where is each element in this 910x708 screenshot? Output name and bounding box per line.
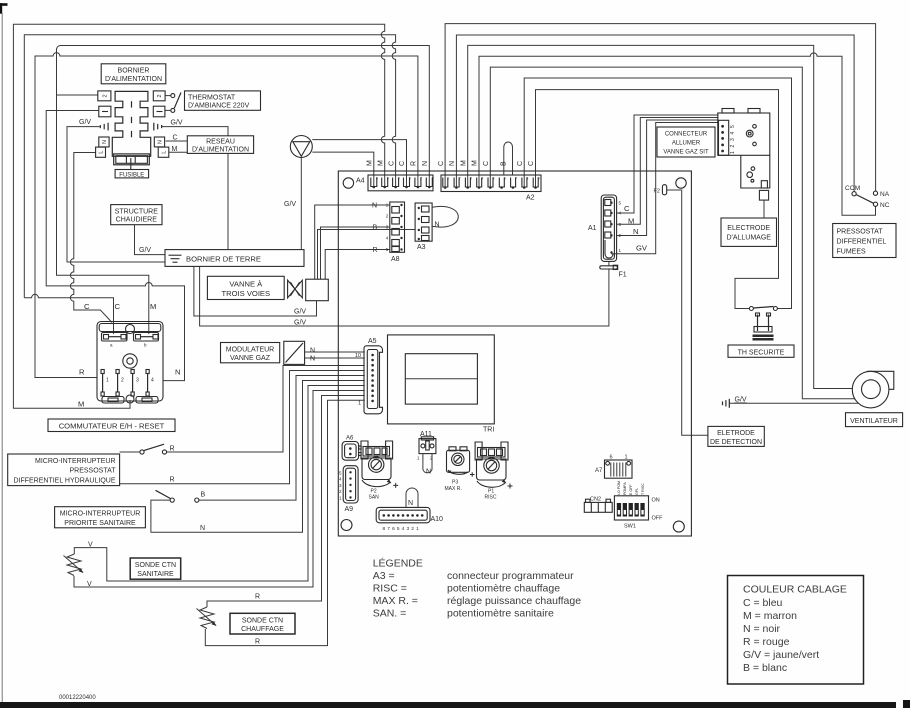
svg-text:5: 5 (730, 125, 736, 128)
label bornier de terre (165, 250, 304, 267)
wire pump lower to A4 pin1 (312, 152, 374, 186)
sonde sanitaire thermistor (64, 554, 84, 576)
svg-text:ELETRODE: ELETRODE (717, 430, 755, 437)
svg-text:G/V: G/V (294, 309, 306, 316)
wire F1 to A1 (608, 261, 610, 266)
svg-text:4: 4 (402, 526, 405, 532)
svg-text:TROIS VOIES: TROIS VOIES (222, 289, 271, 298)
label structure chaudiere (111, 205, 162, 225)
svg-text:A3 =: A3 = (373, 570, 395, 582)
svg-text:5: 5 (493, 177, 495, 181)
wire A5 pin6 N to priorite switch left (151, 381, 365, 533)
wire earth right comb to bornier de terre top (162, 127, 228, 252)
page bottom black bar (0, 700, 910, 708)
svg-text:L: L (161, 151, 167, 154)
svg-text:M = marron: M = marron (743, 610, 797, 622)
svg-text:1: 1 (730, 151, 736, 154)
svg-text:A9: A9 (345, 506, 354, 513)
svg-text:M: M (628, 217, 634, 226)
label sonde ctn chauffage (230, 613, 295, 634)
svg-text:POMPA: POMPA (623, 482, 627, 495)
ground symbol right comb (154, 123, 162, 131)
valve symbol (288, 280, 303, 298)
wire branch to terminal 2 (57, 94, 98, 96)
svg-text:connecteur programmateur: connecteur programmateur (447, 570, 574, 582)
svg-text:L: L (98, 151, 104, 154)
svg-text:SW1: SW1 (624, 524, 636, 530)
mounting hole (673, 521, 684, 532)
wire C: A4 pin3 to junction (24.3,297.7) (24, 35, 395, 298)
svg-text:1: 1 (106, 378, 109, 384)
svg-text:M: M (172, 146, 178, 153)
svg-text:2: 2 (459, 177, 461, 181)
svg-text:COM: COM (845, 185, 860, 192)
wire M to reseau (169, 151, 188, 153)
thermostat lever (174, 93, 181, 109)
comb center slots (131, 101, 133, 107)
svg-text:7: 7 (387, 526, 390, 532)
label micro-interrupteur pressostat differentiel hydraulique (8, 454, 120, 486)
th securite thermostat icon (753, 313, 774, 341)
NA circle (873, 191, 877, 195)
svg-text:FUSIBLE: FUSIBLE (119, 172, 144, 178)
svg-text:A2: A2 (526, 195, 535, 202)
svg-text:VANNE GAZ SIT: VANNE GAZ SIT (663, 150, 709, 156)
label micro-interrupteur priorite sanitaire (55, 507, 146, 528)
svg-text:DIFFERENTIEL HYDRAULIQUE: DIFFERENTIEL HYDRAULIQUE (13, 477, 115, 484)
svg-text:C: C (84, 302, 90, 311)
th securite switch circle left (749, 307, 753, 311)
svg-text:B = blanc: B = blanc (743, 662, 787, 674)
svg-text:FUMEES: FUMEES (837, 249, 867, 256)
svg-text:4: 4 (151, 378, 154, 384)
svg-text:G/V: G/V (171, 120, 183, 127)
svg-text:potentiomètre sanitaire: potentiomètre sanitaire (447, 608, 554, 620)
svg-text:6: 6 (376, 177, 378, 181)
svg-text:A4: A4 (356, 178, 365, 185)
svg-text:2: 2 (420, 177, 422, 181)
svg-text:7: 7 (515, 177, 517, 181)
svg-text:C: C (388, 161, 395, 166)
wire A1 pin4 C to SIT connector (617, 115, 719, 213)
svg-text:NA: NA (880, 191, 890, 198)
wire A2 pin3 M to ventilateur (468, 45, 853, 388)
wire A2 pin1 C to pressostat fumees NA (445, 24, 875, 192)
wire G/V ground to ventilateur (729, 402, 858, 404)
wire A5 pin3 to pressostat switch (167, 366, 365, 453)
terminal 2 left (98, 91, 111, 101)
svg-text:SAN. =: SAN. = (373, 608, 407, 620)
label fusible (115, 170, 149, 179)
svg-text:2: 2 (121, 378, 124, 384)
svg-text:3: 3 (470, 177, 472, 181)
pump circulateur (290, 136, 312, 158)
svg-text:8: 8 (382, 526, 385, 532)
wire A8 pin3 B to valve solenoid (321, 227, 390, 279)
svg-text:R: R (79, 368, 85, 377)
thermostat switch circle top (171, 94, 175, 98)
svg-text:A7: A7 (595, 468, 603, 474)
svg-text:C: C (399, 161, 406, 166)
svg-text:00012220400: 00012220400 (59, 695, 96, 701)
potentiometer P3 MAX R (447, 447, 475, 477)
svg-text:C: C (483, 161, 490, 166)
svg-text:N: N (310, 356, 315, 363)
svg-text:3: 3 (730, 138, 736, 141)
svg-text:N: N (422, 161, 429, 166)
svg-text:M: M (150, 302, 156, 311)
svg-text:C: C (528, 161, 535, 166)
COM circle (852, 192, 856, 196)
A1 pin numbers (619, 201, 622, 254)
svg-text:R: R (255, 594, 260, 601)
label thermostat d'ambiance (185, 91, 261, 110)
mounting hole (676, 178, 686, 188)
ground symbol left comb (100, 123, 108, 131)
wire A3 N to valve solenoid (318, 230, 416, 280)
label eletrode de detection (708, 426, 764, 446)
fusible component (114, 154, 150, 170)
svg-text:B: B (201, 492, 206, 499)
svg-text:SONDE CTN: SONDE CTN (242, 617, 283, 624)
connector A6 (342, 442, 361, 461)
svg-text:C: C (438, 161, 445, 166)
A2 pin labels rotated (438, 160, 535, 166)
A10 jumper loop N (406, 488, 418, 507)
couleur cablage box (728, 576, 864, 685)
svg-text:N: N (633, 227, 638, 236)
svg-text:B: B (501, 161, 508, 166)
svg-text:C = bleu: C = bleu (743, 597, 783, 609)
svg-text:N: N (175, 368, 180, 377)
lever COM-NC (856, 195, 874, 204)
wire A2 pin9 C to th securite left (536, 90, 779, 309)
th securite switch lever (753, 307, 773, 309)
connector A7 (605, 460, 633, 478)
hop arcs (0, 0, 1, 1)
terminal 1 right (153, 106, 165, 117)
terminal 1 left (99, 106, 111, 117)
svg-text:M: M (460, 160, 467, 166)
potentiometer P2 SAN (361, 441, 398, 488)
wire thermostat terminal 2 (165, 95, 170, 97)
wire A5 pin5 B to priorite switch (199, 376, 365, 501)
svg-text:G/V = jaune/vert: G/V = jaune/vert (743, 649, 819, 661)
A11 jumper loop (423, 454, 432, 473)
A3 jumper loop (432, 206, 458, 227)
svg-text:G/V: G/V (139, 247, 151, 254)
svg-text:E OFF: E OFF (629, 484, 633, 495)
svg-text:DIFFERENTIEL: DIFFERENTIEL (837, 239, 887, 246)
wire pump G/V down to bornier de terre (300, 158, 302, 253)
svg-text:VANNE GAZ: VANNE GAZ (230, 355, 271, 362)
svg-text:PRIORITE SANITAIRE: PRIORITE SANITAIRE (64, 520, 136, 527)
svg-text:SANITAIRE: SANITAIRE (137, 571, 174, 578)
valve solenoid box (306, 279, 329, 301)
svg-text:2: 2 (157, 94, 163, 97)
A4 pin labels rotated (367, 160, 430, 166)
fuse F2 (662, 185, 666, 195)
svg-text:R: R (411, 161, 418, 166)
terminal L left (96, 147, 106, 157)
svg-text:ELECTRODE: ELECTRODE (727, 225, 770, 232)
svg-text:M: M (367, 160, 374, 166)
dip labels rotated (617, 481, 645, 495)
fuse F1 (600, 265, 618, 269)
pressostat hydraulique switch (140, 444, 167, 454)
svg-text:N: N (426, 469, 431, 476)
sonde chauffage thermistor (197, 607, 217, 629)
svg-text:MODULATEUR: MODULATEUR (226, 346, 274, 353)
svg-text:2: 2 (411, 526, 414, 532)
wire A5 pin7 V to sonde sanitaire top (74, 386, 364, 582)
svg-text:R: R (373, 247, 378, 254)
svg-text:N: N (449, 161, 456, 166)
svg-text:D'ALLUMAGE: D'ALLUMAGE (726, 235, 771, 242)
wire M: A4 pin2 to commutateur pin3 via page top-left (13, 24, 384, 408)
wire A1 pin2 N to SIT connector (617, 120, 719, 236)
wire N: A4 pin6 down left side (57, 46, 430, 335)
priorite sanitaire switch (156, 490, 199, 502)
svg-text:PRESSOSTAT: PRESSOSTAT (837, 229, 884, 236)
terminal N right (154, 137, 164, 147)
svg-text:V: V (88, 542, 93, 549)
svg-text:TH SECURITE: TH SECURITE (738, 349, 785, 356)
svg-text:OFF: OFF (652, 516, 664, 522)
A9 pin numbers (339, 470, 342, 500)
wire A1 pin1 GV to SIT connector (611, 123, 719, 254)
wire N comb terminal 1 to commutateur pin4 (46, 111, 184, 381)
wire modulator to A5 pin1 (305, 351, 365, 353)
svg-text:G/V: G/V (284, 201, 296, 208)
connector CN2 (584, 499, 612, 512)
label reseau d'alimentation (187, 136, 253, 154)
svg-text:1: 1 (416, 526, 419, 532)
svg-text:D'ALIMENTATION: D'ALIMENTATION (105, 76, 162, 83)
svg-text:2: 2 (102, 94, 108, 97)
svg-text:6: 6 (504, 177, 506, 181)
svg-text:LO POM: LO POM (617, 481, 621, 495)
comb terminal block (112, 91, 150, 156)
wire A2 pin4 M to pressostat fumees NC (479, 53, 876, 215)
svg-text:5: 5 (387, 177, 389, 181)
svg-text:MAX R. =: MAX R. = (373, 595, 418, 607)
wire A2 pin8 C to th securite right (524, 78, 791, 309)
label commutateur E/H reset (48, 419, 175, 432)
wire thermostat terminal 1 (165, 109, 171, 111)
svg-text:potentiomètre chauffage: potentiomètre chauffage (447, 583, 560, 595)
potentiometer P1 RISC (475, 442, 512, 489)
wire A2 pin2 N to pressostat fumees COM (456, 35, 854, 192)
svg-text:A8: A8 (391, 256, 400, 263)
svg-text:M: M (78, 400, 84, 409)
svg-text:2: 2 (730, 145, 736, 148)
svg-text:N: N (435, 222, 440, 229)
svg-text:A3: A3 (417, 244, 426, 251)
wire A5 pin9 R to sonde chauffage top (207, 396, 365, 608)
svg-text:G/V: G/V (79, 119, 91, 126)
wire A5 pin10 R to sonde chauffage bottom (205, 400, 364, 645)
svg-text:R: R (255, 639, 260, 646)
svg-text:M: M (472, 160, 479, 166)
svg-text:F1: F1 (619, 272, 627, 279)
svg-text:A6: A6 (346, 436, 354, 442)
svg-text:4: 4 (730, 132, 736, 135)
svg-text:RISC =: RISC = (373, 583, 407, 595)
svg-text:DE DETECTION: DE DETECTION (710, 439, 762, 446)
wire pump upper to A4 pin4 (312, 140, 406, 186)
svg-text:A10: A10 (431, 516, 444, 523)
svg-text:NC: NC (880, 202, 890, 209)
svg-text:BORNIER: BORNIER (118, 68, 150, 75)
wire G/V bornier de terre to fuse F1 (200, 266, 609, 326)
svg-text:THERMOSTAT: THERMOSTAT (188, 94, 236, 101)
PCB board outline (338, 171, 691, 536)
svg-text:N: N (310, 348, 315, 355)
svg-text:SAN: SAN (369, 495, 380, 501)
connector A11 (419, 437, 436, 454)
label connecteur allumer vanne gaz sit (657, 127, 715, 157)
wire A1 pin3 M to SIT connector (617, 118, 719, 225)
svg-text:VANNE À: VANNE À (229, 279, 263, 288)
svg-text:SONDE CTN: SONDE CTN (135, 562, 176, 569)
svg-text:M: M (377, 160, 384, 166)
thermostat switch circle bottom (171, 108, 175, 112)
svg-text:D'ALIMENTATION: D'ALIMENTATION (192, 146, 249, 153)
svg-text:G/V: G/V (735, 397, 747, 404)
wire A2 pin5 C to ventilateur (490, 67, 854, 399)
wire F2 to electrode detection (667, 190, 708, 435)
svg-text:N: N (157, 140, 163, 144)
label sonde ctn sanitaire (130, 558, 181, 579)
svg-text:V: V (87, 581, 92, 588)
wire A8 pin5 R to valve solenoid (325, 250, 390, 280)
commutateur bottom pins (101, 370, 158, 404)
wire A5 pin4 R to pressostat box (120, 371, 365, 484)
svg-text:PRESSOSTAT: PRESSOSTAT (69, 468, 116, 475)
commutateur body (97, 322, 163, 402)
svg-text:ALLUMER: ALLUMER (672, 141, 701, 147)
wire A5 pin8 V to sonde sanitaire bottom (74, 391, 365, 588)
svg-text:3: 3 (406, 526, 409, 532)
wire C fusible L to commutateur terminal a (70, 153, 112, 323)
svg-text:8: 8 (526, 177, 528, 181)
legend block (373, 557, 582, 620)
svg-text:D'AMBIANCE 220V: D'AMBIANCE 220V (188, 103, 250, 110)
svg-text:ON: ON (652, 498, 660, 504)
svg-text:P3: P3 (452, 480, 458, 486)
svg-text:GPL: GPL (635, 488, 639, 495)
terminal L right (158, 147, 169, 157)
label vanne a trois voies (207, 276, 284, 299)
page left edge line (1, 13, 3, 702)
mounting hole (343, 178, 353, 188)
svg-text:N: N (372, 203, 377, 210)
wire structure chaudiere G/V (135, 225, 166, 255)
label modulateur vanne gaz (221, 343, 280, 363)
connector A10 (376, 507, 430, 522)
svg-text:4: 4 (398, 177, 400, 181)
svg-text:6: 6 (610, 455, 613, 461)
svg-text:1: 1 (625, 455, 628, 461)
label ventilateur (846, 413, 903, 427)
svg-text:C: C (173, 135, 178, 142)
svg-text:C: C (624, 204, 630, 213)
svg-text:CHAUFFAGE: CHAUFFAGE (241, 626, 284, 633)
svg-text:N: N (200, 525, 205, 532)
svg-text:R: R (170, 477, 175, 484)
svg-text:10: 10 (355, 353, 361, 359)
NC circle (873, 202, 877, 206)
label th securite (728, 345, 794, 357)
label pressostat differentiel fumees (833, 224, 896, 258)
wire earth left comb to bornier de terre (67, 127, 165, 262)
svg-text:R: R (170, 446, 175, 453)
wire C branch to commutateur terminal a (24, 294, 113, 334)
svg-text:A5: A5 (368, 338, 377, 345)
wire C to reseau (166, 140, 188, 142)
svg-text:C: C (115, 302, 121, 311)
svg-text:1: 1 (432, 177, 434, 181)
wire modulator to A5 pin2 (305, 357, 365, 359)
svg-text:MICRO-INTERRUPTEUR: MICRO-INTERRUPTEUR (60, 511, 141, 518)
wire R pressostat box to switch (120, 451, 140, 453)
svg-text:5: 5 (397, 526, 400, 532)
svg-text:G/V: G/V (294, 320, 306, 327)
svg-text:3: 3 (136, 378, 139, 384)
ground symbol fan (723, 399, 730, 408)
svg-text:6: 6 (392, 526, 395, 532)
svg-text:CN2: CN2 (590, 497, 601, 503)
svg-text:COMMUTATEUR E/H - RESET: COMMUTATEUR E/H - RESET (59, 422, 165, 431)
mounting hole (341, 520, 352, 531)
svg-text:9: 9 (538, 177, 540, 181)
svg-text:3: 3 (409, 177, 411, 181)
jumper loop A2 pins 6-7 (504, 142, 513, 175)
display TRI (388, 335, 495, 424)
terminal N left (99, 137, 109, 147)
svg-text:B: B (373, 225, 378, 232)
svg-text:LÉGENDE: LÉGENDE (373, 557, 423, 570)
wire R: A4 pin5 to commutateur left (35, 53, 418, 378)
svg-text:BORNIER DE TERRE: BORNIER DE TERRE (186, 255, 261, 264)
terminal 2 right (153, 91, 165, 101)
A8 pin numbers (386, 203, 389, 253)
modulator symbol (284, 341, 305, 364)
svg-text:COULEUR CABLAGE: COULEUR CABLAGE (743, 584, 847, 596)
svg-text:R = rouge: R = rouge (743, 636, 790, 648)
svg-text:N: N (102, 140, 108, 144)
label electrode d'allumage (721, 218, 777, 246)
svg-text:STRUCTURE: STRUCTURE (115, 208, 158, 215)
svg-text:TRI: TRI (483, 427, 494, 434)
svg-text:N: N (408, 500, 413, 507)
svg-text:VENTILATEUR: VENTILATEUR (850, 418, 898, 425)
svg-text:A11: A11 (420, 431, 432, 438)
svg-text:CHAUDIERE: CHAUDIERE (116, 217, 158, 224)
svg-text:T RISC: T RISC (641, 483, 645, 495)
th securite switch circle right (773, 307, 777, 311)
page corner mark top-left (0, 3, 8, 14)
dip switch SW1 (614, 496, 648, 520)
svg-text:1: 1 (447, 177, 449, 181)
label bornier d'alimentation (101, 64, 166, 84)
connector A9 (343, 466, 358, 503)
svg-text:GV: GV (636, 244, 648, 253)
wire A8 pin1 N to valve solenoid (315, 205, 390, 279)
svg-text:réglage puissance chauffage: réglage puissance chauffage (447, 595, 581, 607)
svg-text:RESEAU: RESEAU (206, 138, 235, 145)
